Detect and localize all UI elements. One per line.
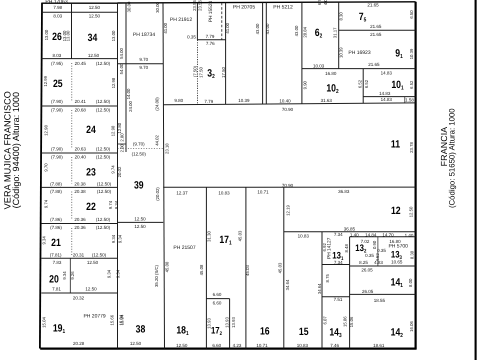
svg-text:13.00: 13.00 xyxy=(44,29,49,40)
svg-text:26.05: 26.05 xyxy=(361,267,373,272)
svg-text:8.00: 8.00 xyxy=(408,278,413,287)
svg-text:41.00: 41.00 xyxy=(225,22,230,33)
svg-text:23.56: 23.56 xyxy=(198,0,203,11)
svg-text:17.50: 17.50 xyxy=(221,67,226,78)
svg-text:35.20 (S/C): 35.20 (S/C) xyxy=(154,264,159,287)
svg-text:12.37: 12.37 xyxy=(176,191,188,196)
svg-text:PH 17063: PH 17063 xyxy=(45,0,67,5)
svg-text:10.39: 10.39 xyxy=(339,47,344,58)
svg-text:1.58: 1.58 xyxy=(405,97,414,102)
svg-text:(7.90): (7.90) xyxy=(51,155,63,160)
svg-text:10.83: 10.83 xyxy=(297,343,309,348)
svg-text:20.32: 20.32 xyxy=(73,296,85,301)
svg-text:20.36: 20.36 xyxy=(74,225,86,230)
svg-text:8.03: 8.03 xyxy=(53,53,62,58)
svg-text:41.00: 41.00 xyxy=(163,22,168,33)
svg-text:(12.50): (12.50) xyxy=(96,146,111,151)
svg-text:9.74: 9.74 xyxy=(110,165,115,174)
svg-text:(7.90): (7.90) xyxy=(51,99,63,104)
svg-text:70.90: 70.90 xyxy=(282,183,294,188)
svg-text:PH 16923: PH 16923 xyxy=(348,50,370,56)
svg-text:(9.70): (9.70) xyxy=(133,142,145,147)
svg-text:(7.81): (7.81) xyxy=(50,253,62,258)
svg-text:10.40: 10.40 xyxy=(279,98,291,103)
svg-text:20.84: 20.84 xyxy=(302,26,307,37)
svg-text:12.99: 12.99 xyxy=(43,75,48,86)
svg-text:20.38: 20.38 xyxy=(74,182,86,187)
svg-text:PH 21912: PH 21912 xyxy=(170,17,192,23)
svg-text:7.51: 7.51 xyxy=(334,297,343,302)
svg-text:20.28: 20.28 xyxy=(73,341,85,346)
svg-text:13.93: 13.93 xyxy=(231,317,236,328)
svg-text:(20.02): (20.02) xyxy=(155,187,160,201)
svg-text:14.84: 14.84 xyxy=(365,233,377,238)
svg-text:2.80: 2.80 xyxy=(120,143,125,152)
svg-text:0.35: 0.35 xyxy=(365,253,374,258)
svg-text:20.36: 20.36 xyxy=(74,217,86,222)
svg-text:24: 24 xyxy=(86,124,96,136)
svg-text:12.50: 12.50 xyxy=(134,217,146,222)
svg-text:21.65: 21.65 xyxy=(370,32,382,37)
svg-text:10.71: 10.71 xyxy=(257,189,269,194)
svg-text:12.50: 12.50 xyxy=(89,5,101,10)
svg-text:11: 11 xyxy=(391,138,400,150)
svg-text:25: 25 xyxy=(53,78,63,90)
svg-text:8.03: 8.03 xyxy=(53,14,62,19)
svg-text:6.52: 6.52 xyxy=(409,80,414,89)
svg-text:PH 20705: PH 20705 xyxy=(233,4,255,10)
svg-text:24.00: 24.00 xyxy=(128,101,133,112)
svg-text:PH 5212: PH 5212 xyxy=(273,4,293,10)
svg-text:12.50: 12.50 xyxy=(130,341,142,346)
svg-text:7.34: 7.34 xyxy=(334,260,343,265)
svg-text:7.79: 7.79 xyxy=(206,34,215,39)
svg-text:6.52: 6.52 xyxy=(364,79,369,88)
svg-text:31.30: 31.30 xyxy=(207,231,212,242)
svg-text:9.34: 9.34 xyxy=(111,234,116,243)
svg-text:(12.50): (12.50) xyxy=(96,61,111,66)
svg-text:36.85: 36.85 xyxy=(344,226,356,231)
svg-text:12.19: 12.19 xyxy=(285,205,290,216)
svg-text:31.63: 31.63 xyxy=(321,98,333,103)
svg-text:0.35: 0.35 xyxy=(377,248,386,253)
svg-text:45.03: 45.03 xyxy=(238,230,243,241)
svg-text:14.83: 14.83 xyxy=(379,91,391,96)
svg-text:PH 21507: PH 21507 xyxy=(173,245,195,251)
svg-text:(12.50): (12.50) xyxy=(96,217,111,222)
svg-text:9.34: 9.34 xyxy=(62,271,67,280)
svg-text:10.83: 10.83 xyxy=(298,233,310,238)
svg-text:20.41: 20.41 xyxy=(75,99,87,104)
svg-text:(7.86): (7.86) xyxy=(50,225,62,230)
svg-text:6.75: 6.75 xyxy=(317,0,322,5)
svg-text:12.98: 12.98 xyxy=(44,125,49,136)
svg-text:(Código: 51650) Altura: 1000: (Código: 51650) Altura: 1000 xyxy=(448,108,457,208)
svg-text:9.90: 9.90 xyxy=(303,80,308,89)
svg-text:(7.90): (7.90) xyxy=(51,107,63,112)
svg-text:10.83: 10.83 xyxy=(218,191,230,196)
svg-text:7.98: 7.98 xyxy=(53,5,62,10)
svg-text:1.40: 1.40 xyxy=(350,233,359,238)
svg-text:12.98: 12.98 xyxy=(110,125,115,136)
svg-text:6.60: 6.60 xyxy=(212,343,221,348)
svg-text:PH 20779: PH 20779 xyxy=(83,313,105,319)
svg-text:16.80: 16.80 xyxy=(325,71,337,76)
svg-text:21.65: 21.65 xyxy=(368,62,380,67)
svg-text:36.83: 36.83 xyxy=(338,189,350,194)
svg-text:8.30: 8.30 xyxy=(339,12,344,21)
svg-text:9.26: 9.26 xyxy=(70,271,75,280)
svg-text:26.05: 26.05 xyxy=(362,289,374,294)
svg-text:34.64: 34.64 xyxy=(285,279,290,290)
svg-text:20.68: 20.68 xyxy=(75,107,87,112)
svg-text:43.00: 43.00 xyxy=(255,23,260,34)
svg-text:17.50: 17.50 xyxy=(199,67,204,78)
svg-text:9.74: 9.74 xyxy=(44,199,49,208)
svg-text:12.80: 12.80 xyxy=(117,122,122,133)
svg-text:10.39: 10.39 xyxy=(409,48,414,59)
svg-text:4.02: 4.02 xyxy=(323,0,328,5)
svg-text:6.60: 6.60 xyxy=(213,300,222,305)
svg-text:15.66: 15.66 xyxy=(110,314,115,325)
svg-text:15.04: 15.04 xyxy=(42,317,47,328)
svg-text:23.56: 23.56 xyxy=(192,0,197,11)
svg-text:PH 15524: PH 15524 xyxy=(208,1,214,23)
svg-text:70.90: 70.90 xyxy=(282,107,294,112)
svg-text:10.71: 10.71 xyxy=(256,343,268,348)
svg-text:(7.50): (7.50) xyxy=(193,65,198,77)
svg-text:12.98: 12.98 xyxy=(111,77,116,88)
svg-text:23.18: 23.18 xyxy=(164,143,169,154)
svg-text:(12.50): (12.50) xyxy=(132,152,147,157)
svg-text:4.83: 4.83 xyxy=(374,260,383,265)
svg-text:(12.50): (12.50) xyxy=(97,182,112,187)
svg-text:9.34: 9.34 xyxy=(115,269,120,278)
svg-text:16: 16 xyxy=(260,325,270,337)
svg-text:44.02: 44.02 xyxy=(155,134,160,145)
svg-text:20.45: 20.45 xyxy=(75,61,87,66)
svg-text:12.50: 12.50 xyxy=(89,14,101,19)
svg-text:45.08: 45.08 xyxy=(199,264,204,275)
svg-text:1.40: 1.40 xyxy=(405,233,414,238)
svg-text:30.00: 30.00 xyxy=(127,1,132,12)
svg-text:9.34: 9.34 xyxy=(114,200,119,209)
svg-text:12.50: 12.50 xyxy=(88,53,100,58)
svg-text:12.50: 12.50 xyxy=(134,224,146,229)
svg-text:(Código: 94400) Altura: 1000: (Código: 94400) Altura: 1000 xyxy=(11,92,21,208)
svg-text:14.70: 14.70 xyxy=(382,233,394,238)
svg-text:39: 39 xyxy=(134,180,144,192)
svg-text:10.65: 10.65 xyxy=(391,260,403,265)
svg-text:20.63: 20.63 xyxy=(75,146,87,151)
svg-text:9.34: 9.34 xyxy=(42,236,47,245)
svg-text:54.00: 54.00 xyxy=(119,63,124,74)
svg-text:2.80: 2.80 xyxy=(120,133,125,142)
svg-text:14.83: 14.83 xyxy=(381,70,393,75)
svg-text:(24.00): (24.00) xyxy=(155,97,160,111)
svg-text:23: 23 xyxy=(86,166,96,178)
svg-text:21.65: 21.65 xyxy=(367,2,379,7)
svg-text:23.78: 23.78 xyxy=(409,142,414,153)
svg-text:6.50: 6.50 xyxy=(409,10,414,19)
svg-text:8.48: 8.48 xyxy=(344,244,349,253)
svg-text:18.55: 18.55 xyxy=(374,298,386,303)
svg-text:21: 21 xyxy=(51,237,61,249)
svg-text:(7.86): (7.86) xyxy=(50,217,62,222)
svg-text:6.92: 6.92 xyxy=(322,243,327,252)
svg-text:26: 26 xyxy=(52,31,62,43)
svg-text:7.81: 7.81 xyxy=(52,286,61,291)
svg-text:12: 12 xyxy=(391,205,401,217)
svg-text:7.76: 7.76 xyxy=(206,41,215,46)
svg-text:7.34: 7.34 xyxy=(334,232,343,237)
svg-text:9.70: 9.70 xyxy=(44,163,49,172)
svg-text:16.06: 16.06 xyxy=(409,321,414,332)
svg-text:20.31: 20.31 xyxy=(73,253,85,258)
svg-text:7.46: 7.46 xyxy=(330,343,339,348)
svg-text:7.79: 7.79 xyxy=(204,99,213,104)
svg-text:9.34: 9.34 xyxy=(117,234,122,243)
svg-text:45.03: 45.03 xyxy=(278,262,283,273)
svg-text:12.50: 12.50 xyxy=(87,260,99,265)
svg-text:9.80: 9.80 xyxy=(174,98,183,103)
svg-text:15.06: 15.06 xyxy=(343,316,348,327)
svg-text:(12.50): (12.50) xyxy=(96,107,111,112)
svg-text:22: 22 xyxy=(86,201,96,213)
svg-text:12.50: 12.50 xyxy=(409,206,414,217)
svg-text:45.08: 45.08 xyxy=(164,261,169,272)
svg-text:15: 15 xyxy=(299,326,309,338)
svg-text:9.70: 9.70 xyxy=(139,65,148,70)
svg-text:31.17: 31.17 xyxy=(332,27,337,38)
svg-text:14.00: 14.00 xyxy=(126,88,131,99)
svg-text:20.02: 20.02 xyxy=(117,166,122,177)
svg-text:43.00: 43.00 xyxy=(294,25,299,36)
svg-text:10.39: 10.39 xyxy=(238,98,250,103)
svg-text:20.38: 20.38 xyxy=(74,189,86,194)
svg-text:30.00: 30.00 xyxy=(155,2,160,13)
svg-text:6.60: 6.60 xyxy=(213,292,222,297)
svg-text:18.61: 18.61 xyxy=(373,343,385,348)
svg-text:(7.90): (7.90) xyxy=(51,146,63,151)
svg-text:13.00: 13.00 xyxy=(111,30,116,41)
svg-text:12.50: 12.50 xyxy=(85,286,97,291)
svg-text:20.40: 20.40 xyxy=(75,155,87,160)
svg-text:(7.88): (7.88) xyxy=(50,182,62,187)
svg-text:PH 18734: PH 18734 xyxy=(133,32,155,38)
svg-text:21.65: 21.65 xyxy=(370,24,382,29)
svg-text:9.70: 9.70 xyxy=(139,57,148,62)
svg-text:10.03: 10.03 xyxy=(313,64,325,69)
svg-text:54.00: 54.00 xyxy=(119,48,124,59)
svg-text:9.34: 9.34 xyxy=(107,269,112,278)
svg-text:(7.88): (7.88) xyxy=(50,189,62,194)
svg-text:(12.50): (12.50) xyxy=(92,253,107,258)
svg-text:9.74: 9.74 xyxy=(108,200,113,209)
svg-text:15.06: 15.06 xyxy=(349,316,354,327)
svg-text:45.03: 45.03 xyxy=(245,265,250,276)
svg-text:13.93: 13.93 xyxy=(224,317,229,328)
svg-text:(12.50): (12.50) xyxy=(96,99,111,104)
svg-text:8.25: 8.25 xyxy=(359,260,368,265)
svg-text:8.30: 8.30 xyxy=(410,250,415,259)
svg-text:15.04: 15.04 xyxy=(120,314,125,325)
svg-text:6.07: 6.07 xyxy=(323,316,328,325)
svg-text:8.75: 8.75 xyxy=(325,274,330,283)
svg-text:38: 38 xyxy=(136,323,146,335)
svg-text:34.64: 34.64 xyxy=(317,283,322,294)
svg-text:(12.50): (12.50) xyxy=(97,189,112,194)
svg-text:(12.50): (12.50) xyxy=(96,225,111,230)
svg-text:34: 34 xyxy=(88,32,98,44)
svg-text:(12.50): (12.50) xyxy=(96,155,111,160)
svg-text:7.83: 7.83 xyxy=(53,260,62,265)
svg-text:6.52: 6.52 xyxy=(358,79,363,88)
svg-text:13.00: 13.00 xyxy=(65,30,70,41)
svg-text:14.83: 14.83 xyxy=(381,97,393,102)
svg-text:43.00: 43.00 xyxy=(265,23,270,34)
svg-text:0.35: 0.35 xyxy=(187,34,196,39)
svg-text:12.50: 12.50 xyxy=(176,343,188,348)
svg-text:20: 20 xyxy=(49,273,59,285)
svg-text:4.23: 4.23 xyxy=(233,343,242,348)
svg-text:(7.95): (7.95) xyxy=(51,61,63,66)
